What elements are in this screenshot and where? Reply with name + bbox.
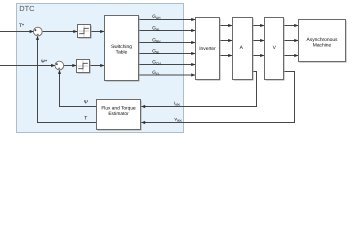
svg-text:DTC: DTC [19, 4, 35, 13]
svg-text:Ψ*: Ψ* [41, 59, 47, 65]
svg-text:Estimator: Estimator [108, 111, 129, 117]
svg-text:Inverter: Inverter [199, 46, 216, 52]
svg-text:Machine: Machine [313, 42, 332, 48]
svg-text:Switching: Switching [111, 44, 132, 50]
svg-text:Flux and Torque: Flux and Torque [101, 105, 136, 111]
svg-text:T: T [84, 115, 87, 121]
svg-text:Asynchronous: Asynchronous [307, 37, 339, 43]
svg-text:Table: Table [116, 50, 128, 56]
svg-text:T*: T* [19, 23, 24, 29]
svg-text:vabc: vabc [175, 118, 183, 123]
svg-text:Ψ: Ψ [84, 99, 88, 105]
